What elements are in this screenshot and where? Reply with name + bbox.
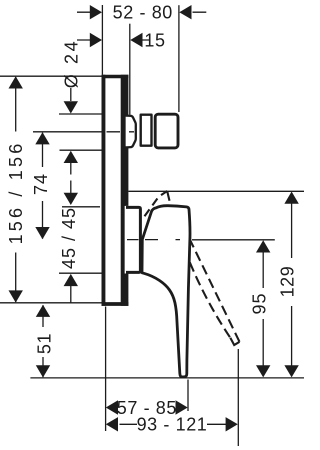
svg-text:93 - 121: 93 - 121 xyxy=(137,415,208,435)
svg-text:129: 129 xyxy=(278,266,298,298)
svg-text:95: 95 xyxy=(249,292,269,314)
svg-text:52 - 80: 52 - 80 xyxy=(113,3,173,23)
svg-text:15: 15 xyxy=(144,30,165,50)
svg-text:156 / 156: 156 / 156 xyxy=(6,141,26,245)
svg-text:74: 74 xyxy=(31,173,51,195)
svg-text:Ø 24: Ø 24 xyxy=(61,39,81,88)
svg-text:45 / 45: 45 / 45 xyxy=(59,207,79,269)
svg-text:51: 51 xyxy=(35,333,55,354)
